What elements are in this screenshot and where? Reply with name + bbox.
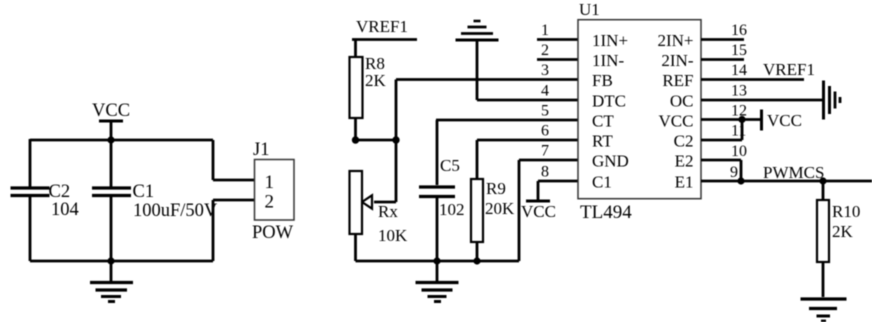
capacitor C1: [92, 188, 131, 196]
wire mid branch upper: [110, 140, 113, 187]
svg-text:VREF1: VREF1: [356, 17, 408, 36]
op-amp U1 TL494 box: [578, 20, 701, 199]
wire pin6 RT: [477, 139, 578, 142]
svg-text:R9: R9: [486, 179, 506, 198]
svg-text:TL494: TL494: [580, 202, 632, 223]
svg-text:REF: REF: [662, 71, 693, 90]
svg-text:J1: J1: [253, 140, 269, 160]
svg-text:GND: GND: [592, 151, 629, 170]
wire R8 bottom: [354, 118, 357, 140]
wire pin12 VCC: [701, 118, 760, 121]
wire bottom rail right: [356, 260, 520, 263]
power VCC (pin8): [526, 200, 550, 203]
svg-text:FB: FB: [592, 71, 613, 90]
wire pin8 C1: [538, 181, 578, 200]
node junction R9 bottom: [473, 257, 480, 264]
svg-text:E2: E2: [675, 151, 694, 170]
wire top rail left: [30, 139, 213, 142]
svg-text:15: 15: [731, 42, 747, 59]
wire R10 bottom: [822, 262, 825, 297]
power VCC (left): [99, 121, 123, 140]
svg-text:VCC: VCC: [767, 111, 802, 130]
svg-text:1IN+: 1IN+: [592, 31, 628, 50]
wire pin15 stub: [701, 58, 744, 61]
svg-text:VCC: VCC: [521, 202, 556, 221]
svg-text:11: 11: [731, 123, 746, 140]
svg-text:6: 6: [541, 123, 549, 140]
wire pin4 DTC: [477, 99, 578, 102]
wire wiper drop: [374, 140, 396, 202]
wire pin2 stub: [537, 58, 578, 61]
resistor R9: [471, 179, 483, 242]
svg-text:CT: CT: [592, 111, 614, 130]
net VREF1 (left) wire: [352, 38, 417, 41]
potentiometer Rx wiper arrow: [362, 195, 372, 208]
wire J1 pin1: [213, 140, 255, 180]
svg-text:102: 102: [439, 200, 465, 219]
wire J1 pin2: [213, 200, 255, 261]
wire bottom rail left: [30, 260, 213, 263]
node junction bottom rail: [107, 257, 114, 264]
svg-text:1: 1: [265, 172, 275, 193]
svg-text:100uF/50V: 100uF/50V: [133, 201, 218, 221]
ground (R10): [801, 299, 847, 321]
svg-text:104: 104: [51, 200, 79, 220]
capacitor C5: [419, 187, 455, 197]
wire left branch lower: [29, 197, 32, 261]
svg-text:2IN+: 2IN+: [657, 31, 693, 50]
wire VREF1 to R8: [354, 40, 357, 58]
wire pin13 OC: [701, 99, 822, 102]
wire pot bottom: [354, 234, 357, 261]
resistor R8: [350, 57, 363, 118]
svg-text:POW: POW: [252, 223, 294, 243]
wire pin1 stub: [537, 38, 578, 41]
svg-text:5: 5: [541, 103, 549, 120]
wire pin7 GND: [519, 160, 578, 261]
ground (chassis, pin13): [824, 81, 841, 120]
wire pin10-pin9 link: [740, 160, 743, 181]
wire R9 bottom: [476, 242, 479, 261]
node junction pin12: [738, 116, 745, 123]
svg-text:4: 4: [541, 83, 549, 100]
svg-text:R10: R10: [832, 202, 860, 221]
node junction C5 bottom: [433, 257, 440, 264]
svg-text:C1: C1: [592, 172, 612, 191]
svg-text:E1: E1: [675, 172, 694, 191]
svg-text:20K: 20K: [485, 199, 515, 218]
svg-text:1: 1: [541, 22, 549, 39]
wire pin14 REF: [701, 78, 804, 81]
power VCC (pin12) bar: [760, 110, 763, 131]
svg-text:9: 9: [730, 164, 738, 181]
connector J1: [255, 160, 295, 221]
node junction pin9: [737, 177, 744, 184]
svg-text:VREF1: VREF1: [763, 60, 815, 79]
svg-text:Rx: Rx: [378, 202, 398, 221]
svg-text:13: 13: [731, 83, 747, 100]
svg-text:C2: C2: [674, 131, 694, 150]
wire C5 top: [436, 120, 439, 185]
wire junction bar: [356, 139, 397, 142]
potentiometer Rx body: [350, 171, 363, 234]
node junction R8/pot: [352, 136, 359, 143]
svg-text:U1: U1: [579, 0, 600, 19]
svg-text:PWMCS: PWMCS: [763, 163, 824, 182]
node junction FB/wiper: [392, 136, 399, 143]
svg-text:VCC: VCC: [92, 101, 130, 121]
svg-text:12: 12: [731, 103, 747, 120]
svg-text:3: 3: [541, 62, 549, 79]
svg-text:C5: C5: [440, 156, 460, 175]
wire pin11 stub: [701, 139, 742, 142]
resistor R10: [817, 200, 829, 262]
svg-text:C1: C1: [133, 182, 155, 202]
ground (main, right circuit): [416, 261, 459, 302]
wire pin16 stub: [701, 38, 744, 41]
svg-text:8: 8: [541, 164, 549, 181]
svg-text:2: 2: [541, 42, 549, 59]
svg-text:C2: C2: [49, 182, 71, 202]
svg-text:DTC: DTC: [592, 91, 626, 110]
svg-text:2K: 2K: [832, 222, 854, 241]
wire R9 top: [476, 140, 479, 179]
wire pin10 stub: [701, 159, 741, 162]
svg-text:OC: OC: [670, 91, 694, 110]
wire pin12-pin11 link: [741, 120, 744, 141]
svg-text:2IN-: 2IN-: [661, 51, 693, 70]
wire mid branch lower: [110, 197, 113, 261]
wire pin3 FB: [396, 78, 578, 81]
capacitor C2: [11, 188, 50, 196]
svg-text:2K: 2K: [365, 71, 387, 90]
svg-text:2: 2: [265, 192, 275, 213]
wire C5 bottom: [436, 198, 439, 261]
wire pin5 CT: [436, 119, 578, 122]
wire pin9 PWMCS: [701, 180, 872, 183]
wire left branch upper: [29, 139, 32, 187]
node junction R10: [819, 177, 826, 184]
ground (left circuit): [90, 261, 133, 302]
wire FB riser: [395, 80, 398, 141]
ground (top, DTC): [456, 21, 499, 100]
svg-text:VCC: VCC: [659, 111, 694, 130]
wire R10 top: [822, 181, 825, 200]
svg-text:14: 14: [731, 62, 747, 79]
svg-text:16: 16: [731, 22, 747, 39]
svg-text:7: 7: [541, 143, 549, 160]
svg-text:10: 10: [731, 143, 747, 160]
svg-text:10K: 10K: [378, 226, 408, 245]
svg-text:RT: RT: [592, 131, 613, 150]
svg-text:1IN-: 1IN-: [592, 51, 624, 70]
node junction VCC rail: [107, 136, 114, 143]
